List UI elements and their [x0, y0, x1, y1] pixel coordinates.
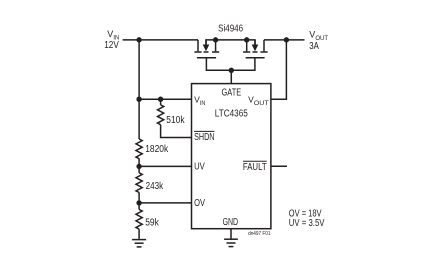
svg-text:dn497 F01: dn497 F01 — [248, 231, 270, 237]
wire gate common — [206, 58, 255, 84]
wire VIN top — [123, 39, 198, 41]
svg-text:3A: 3A — [309, 41, 319, 52]
wire VOUT top — [264, 39, 305, 41]
transistor Q1b (right half Si4946) — [243, 40, 268, 58]
wire GND pin — [230, 229, 232, 239]
svg-text:Si4946: Si4946 — [218, 24, 243, 35]
wire FAULT stub — [271, 165, 287, 167]
wire VOUT drop to IC pin — [271, 40, 287, 99]
svg-text:12V: 12V — [104, 40, 119, 51]
svg-text:UV: UV — [194, 161, 205, 172]
wire FET common-node segment — [206, 40, 255, 45]
svg-text:243k: 243k — [146, 181, 164, 192]
resistor 1820k — [136, 139, 142, 159]
wire left rail — [138, 40, 140, 139]
wire UV row — [139, 165, 191, 167]
svg-text:FAULT: FAULT — [243, 162, 267, 173]
resistor 59k — [136, 209, 142, 229]
resistor 243k — [136, 173, 142, 193]
wire VIN pin row — [139, 98, 191, 100]
wire 510k top — [160, 99, 162, 105]
svg-text:UV = 3.5V: UV = 3.5V — [289, 218, 325, 229]
svg-text:OV: OV — [194, 198, 205, 209]
wire OV row — [139, 202, 191, 204]
svg-text:SHDN: SHDN — [194, 132, 214, 143]
svg-text:510k: 510k — [166, 115, 184, 126]
node: junction dots — [136, 37, 289, 205]
svg-text:LTC4365: LTC4365 — [215, 109, 248, 120]
svg-text:GATE: GATE — [222, 87, 242, 98]
ground (below GND pin) — [224, 239, 238, 246]
svg-text:59k: 59k — [145, 218, 159, 229]
op-amp U1 LTC4365 box — [192, 84, 271, 229]
ground (left, below 59k) — [132, 240, 146, 247]
svg-text:1820k: 1820k — [145, 144, 168, 155]
wire 510k to SHDN pin — [161, 125, 192, 138]
resistor 510k — [158, 105, 164, 125]
transistor Q1a (left half Si4946) — [194, 40, 219, 58]
svg-text:GND: GND — [223, 217, 239, 228]
